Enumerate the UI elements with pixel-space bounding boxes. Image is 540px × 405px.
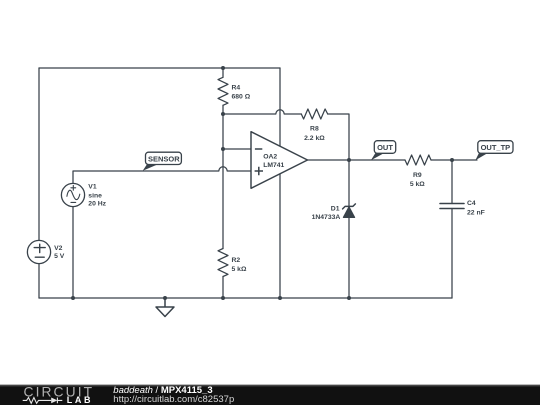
svg-text:1N4733A: 1N4733A bbox=[312, 214, 341, 221]
wire output bbox=[308, 159, 406, 161]
wire D1 branch bbox=[348, 160, 350, 298]
svg-text:5 V: 5 V bbox=[54, 253, 65, 260]
op-amp minus pin sign bbox=[255, 148, 262, 150]
net flag OUT_TP pointer bbox=[475, 153, 488, 160]
svg-text:V1: V1 bbox=[88, 184, 97, 191]
wire left rail upper bbox=[38, 68, 40, 240]
diode D1 triangle bbox=[343, 207, 354, 218]
wire minus input bbox=[223, 114, 251, 249]
footer logo diode bbox=[51, 398, 57, 404]
wire top rail bbox=[39, 67, 280, 69]
svg-text:C4: C4 bbox=[467, 200, 476, 207]
svg-text:OUT_TP: OUT_TP bbox=[481, 143, 511, 152]
wire bottom rail bbox=[39, 297, 452, 299]
net flag SENSOR box bbox=[146, 152, 182, 164]
wire R4 stubs bbox=[222, 68, 224, 114]
junction dot opamp supply bottom bbox=[278, 296, 282, 300]
svg-text:OA2: OA2 bbox=[263, 154, 277, 161]
V1 plus sign bbox=[71, 185, 76, 190]
resistor R4 bbox=[218, 77, 228, 105]
V2 plus sign bbox=[34, 244, 45, 252]
svg-text:sine: sine bbox=[88, 193, 102, 200]
svg-text:D1: D1 bbox=[331, 206, 340, 213]
svg-text:R4: R4 bbox=[232, 85, 241, 92]
resistor R2 bbox=[218, 249, 228, 277]
svg-text:5 kΩ: 5 kΩ bbox=[410, 181, 425, 188]
V2 minus sign bbox=[35, 256, 44, 258]
junction dot V1 bottom bbox=[71, 296, 75, 300]
op-amp OA2 triangle bbox=[251, 132, 308, 189]
net flag OUT pointer bbox=[371, 153, 385, 160]
svg-text:R9: R9 bbox=[413, 172, 422, 179]
voltage source V2 circle bbox=[27, 240, 50, 263]
capacitor C4 plates bbox=[440, 204, 464, 209]
V1 minus sign bbox=[71, 201, 76, 203]
resistor R8 bbox=[301, 109, 327, 119]
wire feedback with hop bbox=[223, 110, 301, 114]
net flag SENSOR pointer bbox=[143, 164, 158, 171]
wire R2 bottom stub bbox=[222, 277, 224, 299]
svg-text:R2: R2 bbox=[232, 257, 241, 264]
wire left rail lower bbox=[38, 264, 40, 298]
junction dot R4 bottom bbox=[221, 112, 225, 116]
junction dot minus input bbox=[221, 147, 225, 151]
wire R8 to output corner bbox=[328, 114, 349, 160]
svg-text:LM741: LM741 bbox=[263, 162, 284, 169]
resistor R9 bbox=[405, 155, 431, 165]
svg-text:20 Hz: 20 Hz bbox=[88, 200, 106, 207]
op-amp plus pin sign bbox=[255, 167, 263, 175]
svg-text:http://circuitlab.com/c82537p: http://circuitlab.com/c82537p bbox=[113, 394, 234, 405]
V1 sine wave bbox=[67, 190, 80, 199]
junction dot R9 right node bbox=[450, 158, 454, 162]
svg-text:SENSOR: SENSOR bbox=[148, 155, 180, 164]
junction dot R2 bottom bbox=[221, 296, 225, 300]
footer bar bbox=[0, 385, 540, 405]
svg-text:5 kΩ: 5 kΩ bbox=[232, 266, 247, 273]
junction dot R4 top bbox=[221, 66, 225, 70]
svg-text:LAB: LAB bbox=[67, 395, 93, 405]
svg-text:680 Ω: 680 Ω bbox=[232, 93, 251, 100]
svg-text:22 nF: 22 nF bbox=[467, 209, 485, 216]
voltage source V1 circle bbox=[61, 183, 84, 206]
ground symbol bbox=[156, 298, 174, 317]
net flag OUT_TP box bbox=[478, 141, 513, 154]
svg-text:2.2 kΩ: 2.2 kΩ bbox=[304, 135, 325, 142]
footer logo resistor squiggle bbox=[23, 398, 52, 404]
wire op-amp supply vertical bbox=[279, 68, 281, 298]
svg-text:OUT: OUT bbox=[377, 143, 393, 152]
diode D1 zener cathode bbox=[343, 204, 356, 209]
svg-text:R8: R8 bbox=[310, 126, 319, 133]
svg-text:V2: V2 bbox=[54, 245, 63, 252]
wire R9 right to OUT_TP bbox=[431, 159, 477, 161]
net flag OUT box bbox=[374, 141, 395, 154]
wire V1 top stub and sensor wire with hop bbox=[73, 167, 251, 298]
wire C4 branch bbox=[451, 160, 453, 298]
junction dot D1 bottom bbox=[347, 296, 351, 300]
junction dot output node bbox=[347, 158, 351, 162]
junction dot ground bbox=[163, 296, 167, 300]
